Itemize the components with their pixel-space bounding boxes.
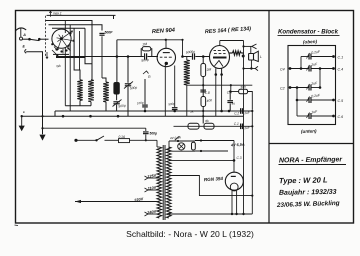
switch riser b <box>69 25 71 36</box>
svg-text:C.3: C.3 <box>237 156 242 160</box>
block capacitor C5 <box>308 97 310 103</box>
transformer core <box>162 145 164 220</box>
svg-text:A: A <box>22 33 26 37</box>
svg-text:Type : W 20 L: Type : W 20 L <box>279 175 328 185</box>
svg-text:Schaltbild: - Nora - W 20 L (1: Schaltbild: - Nora - W 20 L (1932) <box>126 229 254 239</box>
HT minus wire <box>202 110 253 112</box>
svg-text:NORA - Empfänger: NORA - Empfänger <box>279 156 344 164</box>
speaker top plug arrow <box>252 44 257 49</box>
tube leads down <box>215 68 217 74</box>
top bus wire B+ <box>47 14 116 16</box>
mains capacitor 500p <box>145 128 147 131</box>
transformer secondary winding <box>167 147 172 218</box>
wire earth terminal to ground bus <box>26 52 42 134</box>
svg-text:C4: C4 <box>280 68 285 72</box>
svg-text:C.5: C.5 <box>338 99 344 103</box>
bias resistor row <box>174 125 253 127</box>
block link wire 3 <box>296 88 298 117</box>
variable capacitor C-b 500p <box>127 57 129 83</box>
top bus wire 2 <box>46 21 93 80</box>
mains switch <box>74 139 77 142</box>
pilot lamp <box>178 143 185 150</box>
switch lower contacts <box>52 50 58 56</box>
block capacitor C4 <box>308 66 310 72</box>
cathode chain capacitor C8 <box>202 77 204 97</box>
speaker bottom plug arrow <box>244 68 257 70</box>
svg-text:500P: 500P <box>105 31 114 35</box>
grid coil L2 <box>88 80 94 102</box>
series capacitor 500p antenna coil feed <box>99 32 104 34</box>
svg-text:max.1: max.1 <box>53 11 62 15</box>
triode REN904 U1 <box>157 48 175 66</box>
HV winding wire to rectifier C3 <box>169 159 234 161</box>
antenna terminal A <box>16 28 26 31</box>
switch riser a <box>64 21 66 34</box>
svg-text:2M: 2M <box>141 42 147 47</box>
block capacitor C6 <box>308 113 310 119</box>
frame tick mark bottom left <box>15 224 19 227</box>
svg-text:400: 400 <box>206 98 212 103</box>
svg-text:C.6: C.6 <box>338 115 344 119</box>
capacitor 4uF <box>229 92 231 100</box>
rectifier tube U3 <box>225 172 243 190</box>
resistor R1 grid feed <box>116 40 118 83</box>
rectifier filament legs <box>231 191 233 214</box>
heater wires to rectifier <box>195 140 234 142</box>
svg-text:E: E <box>23 110 25 114</box>
svg-text:C2: C2 <box>280 87 285 91</box>
smoothing choke 30h <box>230 85 232 91</box>
cathode lead to ground bus <box>164 65 166 116</box>
pilot lamp loop <box>169 140 195 142</box>
block capacitor C2 <box>308 85 310 91</box>
svg-text:Kondensator - Block: Kondensator - Block <box>278 29 338 36</box>
svg-text:Baujahr : 1932/33: Baujahr : 1932/33 <box>279 189 337 197</box>
grid wire <box>56 56 144 58</box>
junction dots on ground bus <box>62 115 65 118</box>
right filter riser <box>251 109 253 214</box>
panel separator vertical line <box>268 11 270 223</box>
grid leak resistor 2M <box>141 49 142 57</box>
capacitor block outline <box>288 46 336 125</box>
svg-text:30h: 30h <box>240 85 246 90</box>
lamp switch blade <box>175 136 180 140</box>
mains bus wire <box>43 127 146 129</box>
coil bottom wiring <box>79 101 81 106</box>
anode feed vertical <box>182 40 184 57</box>
svg-text:2M: 2M <box>205 67 211 72</box>
block link wire 1 <box>300 57 302 69</box>
wave band switch S1 <box>52 29 71 48</box>
bus end hook <box>113 15 115 19</box>
svg-text:500p: 500p <box>150 132 158 136</box>
AF choke <box>184 60 190 85</box>
heater dropper resistor <box>192 142 196 150</box>
speaker wiring bus <box>243 41 245 215</box>
svg-text:C.8: C.8 <box>205 91 210 95</box>
dashed tuning link line <box>45 16 47 57</box>
panel divider horizontal line <box>269 143 354 145</box>
svg-text:C.4: C.4 <box>338 68 344 72</box>
feedback coil L3 <box>103 82 109 102</box>
block link wire 2 <box>319 69 321 88</box>
B+ distribution wire <box>187 84 253 86</box>
top cap wire to speaker bus <box>220 40 244 42</box>
ground bus <box>22 115 244 117</box>
top bus wire 3 <box>49 25 103 31</box>
svg-text:C.1: C.1 <box>338 56 344 60</box>
switch contact G <box>143 71 149 74</box>
antenna coil L1 <box>77 80 82 101</box>
svg-text:C.1: C.1 <box>234 122 239 126</box>
anode lead up <box>165 40 167 49</box>
wire loops above coils <box>64 48 66 106</box>
max adjust arrow <box>50 11 52 17</box>
loudspeaker LS <box>249 54 254 61</box>
output tube RES164 U2 <box>210 46 230 69</box>
ground symbol 1 <box>21 116 23 126</box>
secondary output wires <box>169 176 253 196</box>
border frame of schematic sheet <box>16 11 354 224</box>
svg-text:(unten): (unten) <box>301 128 317 134</box>
tube top cap lead <box>219 41 221 46</box>
wire antenna to band switch <box>28 38 31 41</box>
nest wire 4 <box>52 27 85 29</box>
voltage taps <box>148 177 159 179</box>
speaker bottom lead <box>250 60 252 69</box>
rectifier feed <box>233 141 235 173</box>
power transformer T1 primary winding <box>157 147 162 218</box>
svg-text:L: L <box>260 55 262 59</box>
grid capacitor 500p <box>144 53 146 59</box>
grid resistor 2M <box>202 57 204 64</box>
output transformer primary squiggle <box>229 52 232 54</box>
anode wire <box>117 39 183 41</box>
cathode bypass capacitor 700p <box>174 66 176 108</box>
svg-text:(oben): (oben) <box>303 39 318 45</box>
coupling capacitor 5000p <box>183 56 192 58</box>
variable capacitor C-a 500p <box>116 94 118 100</box>
svg-text:C.2: C.2 <box>234 111 239 115</box>
bias resistor 400 <box>201 97 206 107</box>
block capacitor C1 <box>308 54 310 60</box>
